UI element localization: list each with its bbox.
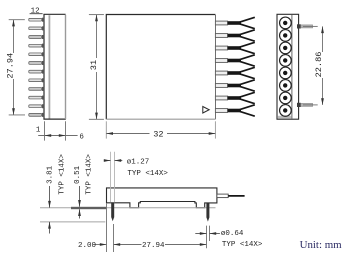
pin 12 label [30,8,43,16]
back-view eyelet 6 [280,80,292,92]
dimension dia 1.27 TYP (14X) [104,158,169,178]
pin1 triangle marker [203,107,209,114]
svg-text:Unit: mm: Unit: mm [300,239,343,251]
side-view body [44,14,66,119]
svg-text:TYP <14X>: TYP <14X> [222,241,263,249]
dimension 3.81 TYP (14X) [47,154,67,234]
front-view fork pin 7 [215,92,254,103]
seating plane line [40,207,216,209]
front-view fork pin 4 [215,55,254,66]
svg-text:3.81: 3.81 [47,165,55,184]
back-view top pin [297,24,313,28]
svg-text:27.94: 27.94 [142,242,165,250]
dimension 22.86 [303,26,324,105]
front-view fork pin 6 [215,80,254,91]
lead thickness bar [71,207,107,209]
side-view pin 2 [29,104,44,108]
dimension 2.00 [78,204,114,252]
side-view pin 6 [29,70,44,74]
svg-text:31: 31 [89,60,99,70]
dimension 31 [89,15,104,120]
side-view pin 5 [29,78,44,82]
back-view bottom pin [297,103,313,107]
svg-text:TYP <14X>: TYP <14X> [127,170,168,178]
back-view eyelet 1 [280,17,292,29]
dimension 27.94 bottom [114,242,207,250]
front-view fork pin 3 [215,42,254,53]
dimension dia 0.64 TYP (14X) [195,226,263,250]
bottom-view left pin [111,203,114,221]
side-view pin 1 [29,113,44,117]
front-view fork pin 8 [215,105,254,116]
side-view pin 8 [29,52,44,56]
side-view pin 10 [29,35,44,39]
bottom-view side pin [217,194,245,198]
front-view fork pin 2 [215,30,254,41]
svg-text:22.86: 22.86 [314,52,324,78]
back-view eyelet 7 [280,92,292,104]
dimension 6 [38,121,84,141]
lead tip line [40,221,105,223]
dimension 0.51 TYP (14X) [74,154,94,219]
back-view eyelet 8 [280,105,292,117]
side-view pin 7 [29,61,44,65]
side-view pin 9 [29,44,44,48]
dimension 32 [106,121,215,139]
back-view eyelet 5 [280,67,292,79]
svg-text:ø0.64: ø0.64 [221,230,244,238]
dimension 27.94 side view [6,20,25,115]
back-view eyelet 2 [280,30,292,42]
lead width extension lines [111,152,115,203]
svg-text:1: 1 [36,127,41,135]
side-view pin 12 [29,18,44,22]
side-view pin 3 [29,96,44,100]
side-view pin 11 [29,26,44,30]
bottom-view right pin [206,203,209,222]
svg-text:32: 32 [153,130,163,140]
svg-text:27.94: 27.94 [6,53,16,79]
svg-text:6: 6 [79,133,84,141]
back-view eyelet 3 [280,42,292,54]
svg-text:12: 12 [31,8,40,16]
svg-text:0.51: 0.51 [74,165,82,184]
front-view fork pin 5 [215,67,254,78]
bottom-view body with standoff feet [107,188,217,208]
back-view eyelet 4 [280,55,292,67]
side-view pin 4 [29,87,44,91]
front-view body [106,15,215,120]
svg-text:ø1.27: ø1.27 [127,158,150,166]
svg-text:TYP <14X>: TYP <14X> [58,154,66,195]
svg-text:2.00: 2.00 [78,242,97,250]
svg-text:TYP <14X>: TYP <14X> [86,154,94,195]
front-view fork pin 1 [215,17,254,28]
back-view body [277,14,299,119]
